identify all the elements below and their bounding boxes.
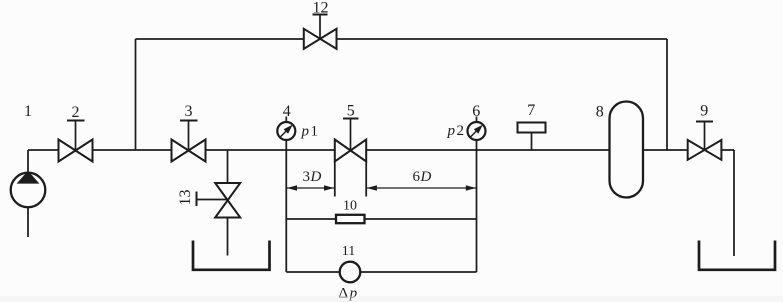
- svg-text:2: 2: [72, 104, 80, 121]
- svg-text:13: 13: [177, 190, 194, 206]
- stem gauge 4 tick: [285, 117, 287, 123]
- tank left open sump: [193, 241, 270, 270]
- valve V13 vertical: [215, 183, 240, 218]
- faint scan wash at bottom edge: [0, 296, 783, 302]
- svg-text:1: 1: [24, 103, 32, 120]
- svg-text:10: 10: [343, 199, 357, 214]
- svg-text:6D: 6D: [413, 169, 432, 185]
- separator vessel 8: [610, 102, 644, 198]
- dimension arrow 3D: [287, 185, 334, 190]
- valve V5: [335, 140, 366, 162]
- wire dimension boundary left of valve 5: [334, 161, 336, 197]
- stem valve 12: [319, 15, 321, 40]
- wire p1 pressure tap: [285, 131, 287, 272]
- svg-text:9: 9: [700, 103, 708, 120]
- wire bottom loop through gauge 11: [286, 271, 476, 273]
- tank right open sump: [699, 241, 775, 270]
- valve V3: [172, 140, 206, 162]
- wire dimension boundary right of valve 5: [365, 161, 367, 197]
- wire drain branch to valve 13: [227, 150, 229, 256]
- wire bypass left riser: [135, 39, 137, 150]
- wire outlet drop after valve 9: [733, 150, 735, 256]
- thermometer pocket 7: [518, 123, 546, 133]
- stem valve 9: [704, 122, 706, 151]
- svg-text:5: 5: [347, 103, 355, 120]
- stem valve 5: [350, 119, 352, 151]
- svg-text:6: 6: [472, 103, 480, 120]
- orifice box 10: [336, 215, 365, 223]
- gauge P6 (p2): [468, 122, 486, 140]
- valve V2: [59, 140, 93, 162]
- stem gauge 6 tick: [476, 117, 478, 123]
- dimension arrow 6D: [367, 185, 476, 190]
- svg-text:11: 11: [342, 244, 355, 259]
- svg-text:3: 3: [185, 103, 193, 120]
- svg-text:7: 7: [527, 102, 535, 119]
- differential gauge 11: [340, 262, 361, 283]
- svg-text:4: 4: [283, 103, 291, 120]
- wire line through orifice box 10: [286, 218, 476, 220]
- pump 1: [11, 171, 46, 207]
- wire bypass right drop: [666, 39, 668, 150]
- wire pump riser and suction: [27, 150, 29, 237]
- svg-text:12: 12: [313, 0, 329, 17]
- svg-text:8: 8: [596, 104, 604, 121]
- valve V12 bypass: [304, 29, 337, 49]
- stem rectangle 7: [531, 133, 533, 151]
- wire main pipe line: [28, 149, 734, 151]
- stem valve 2: [75, 121, 77, 151]
- stem valve 13: [197, 199, 228, 201]
- stem valve 3: [188, 121, 190, 151]
- wire p2 pressure tap: [476, 131, 478, 272]
- svg-text:3D: 3D: [303, 169, 322, 185]
- gauge P4 (p1): [277, 122, 295, 140]
- wire bypass top line: [136, 38, 668, 40]
- valve V9: [688, 140, 722, 160]
